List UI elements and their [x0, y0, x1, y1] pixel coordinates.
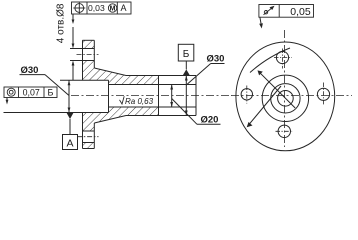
svg-text:0,07: 0,07 — [23, 88, 40, 98]
feature control frame runout 0,05 — [259, 5, 314, 18]
svg-text:0,05: 0,05 — [290, 6, 311, 18]
hole diameter dimension line 4 otv d8 — [72, 27, 75, 80]
right view horizontal centerline — [231, 95, 352, 97]
bolt hole top (section) — [70, 49, 94, 61]
bolt hole top centerline — [77, 54, 99, 56]
hatch section fill flange bottom — [83, 143, 95, 149]
svg-text:Ø30: Ø30 — [21, 65, 39, 76]
datum A symbol — [63, 113, 78, 150]
svg-text:A: A — [66, 138, 73, 150]
svg-text:M: M — [110, 6, 116, 13]
dimension d30 right (cylinder) — [185, 64, 225, 116]
flange outer circle — [236, 42, 335, 151]
bolt hole bottom (section) — [83, 131, 95, 143]
leader arrow below concentricity frame — [6, 98, 9, 105]
feature control frame concentricity 0,07 B — [4, 87, 57, 98]
leader arrow from frame to hole dimension — [72, 14, 75, 24]
hub taper outline — [94, 68, 126, 123]
bolt hole top — [274, 49, 292, 69]
main axis centerline of side view — [71, 95, 232, 97]
bolt hole bottom centerline — [77, 136, 99, 138]
svg-text:Б: Б — [47, 88, 53, 98]
hatch section fill upper hub — [83, 61, 159, 85]
central circle bore d20 — [278, 91, 294, 107]
svg-text:4 отв.Ø8: 4 отв.Ø8 — [56, 3, 67, 43]
section boundary vertical — [158, 76, 160, 116]
bore step shoulder — [108, 80, 110, 112]
flange outline — [83, 40, 95, 148]
dimension d30 left (bore) — [20, 75, 71, 113]
svg-text:Ø20: Ø20 — [201, 115, 219, 126]
diagonal arrow through center — [258, 70, 296, 108]
bore d20 edges — [109, 85, 197, 108]
svg-text:0,03: 0,03 — [88, 3, 105, 13]
feature control frame position 0,03 M A — [72, 2, 132, 14]
roughness mark Ra 0,63 — [120, 96, 125, 104]
bolt hole bottom — [276, 125, 294, 137]
svg-text:Ø30: Ø30 — [207, 54, 225, 65]
diagonal arrow to outer circle — [247, 86, 281, 127]
svg-text:A: A — [120, 3, 126, 13]
svg-text:Б: Б — [183, 49, 190, 60]
dimension d20 (bore) — [170, 85, 220, 125]
hatch section fill lower hub — [83, 107, 159, 131]
bore d30 edges with extension lines — [4, 80, 109, 112]
bolt circle arc — [250, 48, 290, 73]
central circle d30 — [271, 84, 300, 113]
bolt hole right — [317, 83, 329, 106]
hatch section fill flange top — [83, 40, 95, 48]
cylinder outline — [126, 76, 196, 116]
right view vertical centerline — [284, 30, 286, 147]
leader arrow below runout frame — [259, 17, 263, 28]
svg-text:Ra 0,63: Ra 0,63 — [125, 97, 154, 106]
central circle hub — [262, 75, 308, 121]
bolt hole left — [241, 86, 252, 104]
datum B symbol on cylinder — [178, 44, 194, 75]
